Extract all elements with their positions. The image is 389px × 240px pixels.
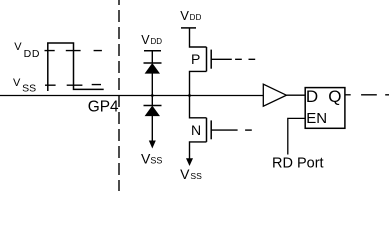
- pin boundary dashed line: [118, 0, 120, 191]
- wire GP4 (pin wire): [0, 95, 263, 97]
- arrow to VSS rail (driver): [186, 158, 193, 166]
- wire diode D1 to pin wire: [151, 73, 153, 95]
- transistor P (PMOS): [207, 47, 232, 71]
- buffer U1 (input buffer): [263, 84, 286, 106]
- diode D2 (clamp to VSS): [144, 106, 162, 116]
- wire pin wire to NMOS drain: [190, 96, 207, 118]
- svg-text:D: D: [306, 87, 318, 106]
- VDD rail bar (driver): [181, 27, 196, 29]
- wire buffer to latch D: [286, 94, 305, 96]
- arrow to VSS rail: [149, 141, 156, 149]
- svg-text:N: N: [191, 122, 201, 138]
- P gate dashed wire: [235, 58, 255, 60]
- VDD rail bar: [144, 50, 161, 52]
- wire pin wire to diode D2: [151, 96, 153, 106]
- transistor N (NMOS): [207, 118, 238, 142]
- svg-text:VDD: VDD: [180, 8, 201, 23]
- svg-text:VSS: VSS: [13, 77, 36, 94]
- wire Q output: [345, 94, 351, 96]
- svg-text:GP4: GP4: [88, 99, 119, 116]
- svg-text:VDD: VDD: [141, 33, 162, 47]
- VSS reference dashed level: [45, 84, 101, 87]
- wire VDD bar to diode D1: [151, 51, 153, 63]
- wire PMOS drain to pin wire: [190, 71, 207, 95]
- junction dot: [151, 94, 154, 97]
- svg-text:VSS: VSS: [141, 151, 162, 167]
- input pulse waveform: [48, 43, 104, 91]
- svg-text:Q: Q: [328, 87, 341, 106]
- svg-text:VDD: VDD: [14, 41, 40, 60]
- wire RD Port to EN: [288, 118, 305, 154]
- svg-text:VSS: VSS: [180, 166, 202, 182]
- VDD reference dashed level: [45, 50, 102, 52]
- wire diode D2 to VSS arrow: [151, 116, 153, 142]
- latch U2 (RD port latch): [305, 88, 345, 129]
- junction dot: [188, 94, 191, 97]
- wire NMOS source to VSS arrow: [190, 142, 207, 159]
- Q output dashed wire: [361, 94, 389, 96]
- diode D1 (clamp to VDD): [144, 63, 162, 73]
- wire VDD bar to PMOS source: [190, 28, 207, 47]
- N gate dashed wire: [245, 129, 252, 131]
- svg-text:EN: EN: [306, 110, 327, 127]
- svg-text:RD Port: RD Port: [272, 156, 324, 172]
- svg-text:P: P: [191, 51, 200, 67]
